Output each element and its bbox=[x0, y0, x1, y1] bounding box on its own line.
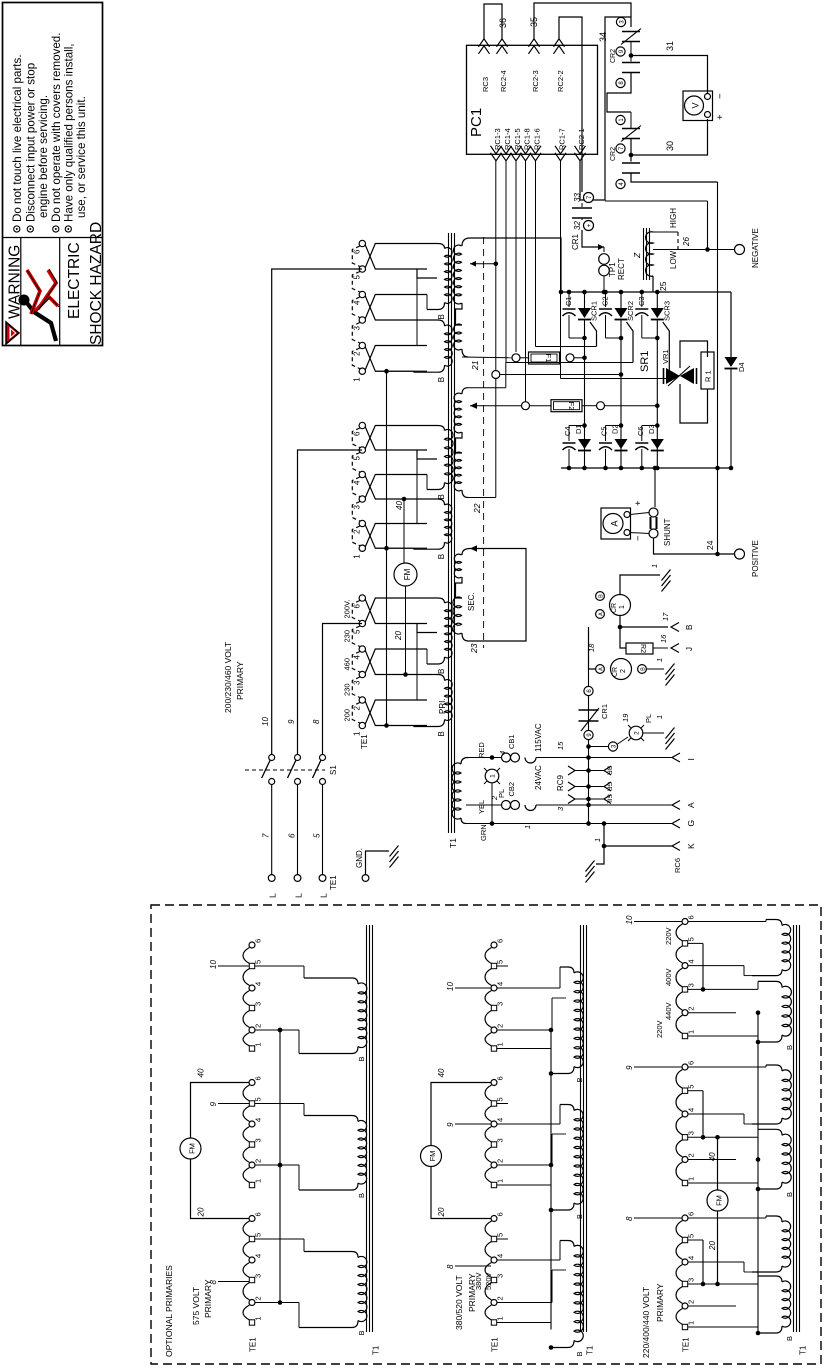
pilot light 1PL bbox=[485, 769, 499, 783]
ground terminal GND bbox=[362, 875, 369, 882]
220/400/440V group link bus bbox=[757, 1013, 759, 1334]
575V input wire 10 bbox=[218, 965, 249, 967]
svg-text:B: B bbox=[785, 1336, 794, 1341]
svg-text:18: 18 bbox=[587, 643, 596, 652]
380/520V wire 20 bbox=[431, 1167, 491, 1219]
svg-text:1: 1 bbox=[593, 838, 602, 842]
wire from bus to shunt bbox=[653, 466, 658, 471]
svg-text:SR1: SR1 bbox=[639, 351, 651, 372]
choke Z winding bbox=[646, 232, 653, 277]
svg-text:B: B bbox=[685, 625, 694, 630]
svg-text:6: 6 bbox=[288, 833, 297, 838]
svg-text:4: 4 bbox=[687, 1256, 696, 1260]
input leads L L L wires 7 6 5 bbox=[271, 785, 273, 875]
svg-text:460: 460 bbox=[343, 658, 352, 671]
575V terminal group 3 bbox=[249, 1216, 255, 1222]
380/520V transformer core bbox=[580, 925, 582, 1332]
svg-text:230: 230 bbox=[343, 683, 352, 696]
svg-text:200: 200 bbox=[343, 709, 352, 722]
380/520V input wire 10 bbox=[455, 987, 491, 989]
svg-text:4: 4 bbox=[254, 1118, 263, 1122]
220/400/440V terminal group 1 bbox=[682, 919, 688, 925]
resistor R2 wire 16 bbox=[620, 627, 626, 648]
PC1 pin RC1-3 bbox=[491, 153, 502, 161]
varistor VR1 bbox=[666, 376, 669, 379]
svg-text:T1: T1 bbox=[799, 1345, 808, 1355]
PC1 pin RC1-6 bbox=[530, 153, 541, 161]
svg-text:6: 6 bbox=[496, 1076, 505, 1080]
wire 36 jumper RC3 to RC2-4 bbox=[484, 4, 502, 40]
svg-text:9: 9 bbox=[625, 1065, 634, 1070]
electric shock hazard figure bbox=[19, 269, 60, 341]
voltmeter V bbox=[683, 91, 713, 121]
svg-text:1: 1 bbox=[254, 1179, 263, 1183]
575V transformer core bbox=[366, 925, 368, 1332]
svg-text:CB2: CB2 bbox=[507, 782, 516, 797]
svg-text:C3: C3 bbox=[637, 296, 646, 306]
wire 40 to fan motor bbox=[402, 497, 407, 502]
220/400/440V winding group 3 bbox=[782, 1221, 791, 1267]
pilot light 2PL wire 19 bbox=[589, 746, 609, 748]
220/400/440V input wire 9 bbox=[634, 1066, 682, 1068]
svg-text:T1: T1 bbox=[372, 1345, 381, 1355]
input disconnect switch S1 bbox=[269, 755, 275, 761]
PC1 pin RC2-1 bbox=[575, 153, 586, 161]
svg-text:6: 6 bbox=[496, 1212, 505, 1216]
svg-text:VR1: VR1 bbox=[661, 349, 670, 364]
svg-text:5: 5 bbox=[353, 456, 362, 461]
terminal link cluster TE1 group 1 bbox=[352, 246, 360, 267]
wire 8 input to group3 terminal 5 bbox=[323, 624, 363, 757]
svg-text:5: 5 bbox=[687, 1234, 696, 1238]
svg-text:2: 2 bbox=[254, 1159, 263, 1163]
gate wires to PC1 bbox=[536, 346, 597, 348]
SCR1 gate lead bbox=[590, 322, 597, 347]
380/520V input wire 8 bbox=[455, 1265, 491, 1267]
primary winding group 3 coil B bbox=[427, 675, 445, 681]
control bus bbox=[588, 669, 590, 823]
PC1 pin RC1-8 bbox=[520, 153, 531, 161]
rectifier cathode bus wire 25 bbox=[561, 291, 731, 293]
svg-text:35: 35 bbox=[529, 17, 539, 27]
svg-text:3: 3 bbox=[353, 326, 362, 331]
relay coil CR1 bbox=[610, 595, 631, 616]
575V wire 20 bbox=[191, 1159, 250, 1219]
wire 10 input to group1 terminal 5 bbox=[272, 269, 362, 756]
svg-text:2: 2 bbox=[353, 529, 362, 534]
wire 9 input to group2 terminal 5 bbox=[298, 450, 363, 756]
svg-text:CB1: CB1 bbox=[507, 734, 516, 749]
svg-text:2: 2 bbox=[353, 351, 362, 356]
380/520V terminal group 1 bbox=[491, 942, 497, 948]
svg-text:TE1: TE1 bbox=[249, 1337, 258, 1352]
svg-text:3: 3 bbox=[254, 1138, 263, 1142]
svg-text:220V: 220V bbox=[664, 927, 673, 945]
svg-text:4: 4 bbox=[496, 982, 505, 986]
CR2 relay contact 1-7 (NC) bbox=[616, 115, 625, 124]
svg-text:A: A bbox=[686, 802, 696, 808]
transformer T1 core bbox=[448, 233, 450, 833]
svg-text:B: B bbox=[641, 667, 647, 671]
svg-text:1: 1 bbox=[254, 1316, 263, 1320]
snubber capacitor C3 bbox=[640, 290, 645, 295]
svg-text:3: 3 bbox=[496, 1274, 505, 1278]
HIGH tap (dashed) wire 26 bbox=[653, 231, 678, 233]
svg-text:CR1: CR1 bbox=[600, 704, 609, 719]
svg-text:B: B bbox=[599, 594, 605, 598]
wire 1 CR2 coil to ground bbox=[647, 668, 665, 670]
wire 30 to voltmeter plus bbox=[630, 139, 632, 162]
svg-text:34: 34 bbox=[598, 32, 608, 42]
svg-text:B: B bbox=[437, 314, 446, 319]
shunt bbox=[649, 508, 658, 517]
svg-text:B: B bbox=[437, 377, 446, 382]
svg-text:B: B bbox=[785, 1045, 794, 1050]
svg-text:GR: GR bbox=[605, 782, 612, 792]
svg-text:20: 20 bbox=[437, 1207, 446, 1217]
svg-text:GND.: GND. bbox=[355, 848, 364, 868]
svg-text:40: 40 bbox=[395, 501, 404, 510]
svg-text:use, or service this unit.: use, or service this unit. bbox=[75, 96, 88, 218]
svg-text:POSITIVE: POSITIVE bbox=[751, 540, 760, 577]
svg-text:T1: T1 bbox=[448, 838, 458, 848]
svg-text:C4: C4 bbox=[563, 426, 572, 436]
control winding 115V/24V bbox=[461, 758, 468, 765]
svg-text:6: 6 bbox=[353, 249, 362, 254]
380/520V terminal group 3 bbox=[491, 1216, 497, 1222]
thyristor SCR2 bbox=[619, 290, 624, 295]
svg-text:2: 2 bbox=[687, 1300, 696, 1304]
secondary winding 3 bbox=[462, 549, 470, 556]
svg-text:RC2-3: RC2-3 bbox=[531, 70, 540, 92]
svg-text:SCR3: SCR3 bbox=[662, 301, 671, 321]
svg-text:A: A bbox=[610, 520, 620, 526]
svg-text:TE1: TE1 bbox=[360, 734, 369, 749]
svg-text:FM: FM bbox=[188, 1143, 197, 1154]
svg-text:5: 5 bbox=[254, 1097, 263, 1101]
svg-text:10: 10 bbox=[261, 717, 270, 726]
svg-text:B: B bbox=[785, 1192, 794, 1197]
svg-text:TE1: TE1 bbox=[491, 1337, 500, 1352]
svg-text:2: 2 bbox=[687, 1007, 696, 1011]
svg-text:1: 1 bbox=[687, 1321, 696, 1325]
svg-text:C6: C6 bbox=[636, 426, 645, 436]
svg-text:F1: F1 bbox=[544, 354, 553, 363]
svg-text:Z: Z bbox=[632, 252, 642, 259]
svg-text:Do not touch live electrical p: Do not touch live electrical parts. bbox=[11, 54, 24, 222]
connector pin 6 bbox=[584, 686, 593, 695]
575V input wire 8 bbox=[218, 1281, 249, 1283]
svg-text:2: 2 bbox=[353, 706, 362, 711]
svg-text:1: 1 bbox=[655, 658, 664, 662]
svg-text:24VAC: 24VAC bbox=[534, 765, 543, 790]
svg-text:D4: D4 bbox=[737, 362, 746, 372]
svg-text:RC1-7: RC1-7 bbox=[558, 128, 567, 150]
svg-text:20: 20 bbox=[394, 631, 403, 641]
svg-text:8: 8 bbox=[312, 719, 321, 724]
svg-text:A: A bbox=[599, 612, 605, 616]
wire 17 to terminal B bbox=[620, 616, 668, 628]
sec1 center tap wire bbox=[470, 261, 476, 267]
svg-text:400V: 400V bbox=[664, 968, 673, 986]
wire sec2 top to PC1 RC1-4 net bbox=[468, 387, 506, 389]
svg-text:380V: 380V bbox=[474, 1272, 483, 1290]
choke Z core bbox=[643, 228, 645, 280]
svg-text:10: 10 bbox=[209, 960, 218, 969]
rectifier anode bus bbox=[561, 467, 731, 469]
svg-text:23: 23 bbox=[469, 643, 479, 654]
wire 24 to positive terminal bbox=[654, 538, 735, 554]
svg-text:C5: C5 bbox=[600, 426, 609, 436]
svg-text:1: 1 bbox=[523, 825, 532, 829]
svg-text:200V.: 200V. bbox=[343, 600, 352, 619]
relay coil CR2 wire 18 bbox=[589, 627, 596, 669]
POSITIVE output terminal bbox=[735, 549, 745, 559]
svg-text:1: 1 bbox=[650, 564, 659, 568]
dash centerline bbox=[483, 237, 485, 648]
svg-text:9: 9 bbox=[446, 1122, 455, 1127]
svg-text:RC2-4: RC2-4 bbox=[499, 70, 508, 92]
wire sec3 to control circuit bbox=[468, 549, 526, 642]
GRN lead wire G bbox=[466, 823, 672, 825]
svg-text:33: 33 bbox=[573, 193, 582, 202]
svg-text:J: J bbox=[685, 647, 694, 651]
220/400/440V winding group 1 bbox=[782, 924, 791, 970]
svg-text:3: 3 bbox=[254, 1002, 263, 1006]
positive bus wire bbox=[717, 182, 719, 554]
svg-text:4: 4 bbox=[496, 1254, 505, 1258]
svg-text:F2: F2 bbox=[567, 402, 576, 411]
wire negative to CR2 contact chain bbox=[707, 201, 709, 250]
svg-text:RC6: RC6 bbox=[673, 858, 682, 873]
svg-text:5: 5 bbox=[254, 1233, 263, 1237]
380/520V fan motor FM bbox=[421, 1146, 442, 1167]
svg-text:CR2: CR2 bbox=[610, 147, 617, 161]
svg-text:Have only qualified persons in: Have only qualified persons install, bbox=[63, 43, 76, 222]
svg-text:SIL: SIL bbox=[605, 794, 612, 804]
connector pin J3-7 wire 33 bbox=[584, 193, 594, 203]
primary winding group 1 coil A bbox=[427, 244, 445, 249]
wire 35 RC2-3 to CR2 contact 3 bbox=[534, 3, 631, 40]
svg-text:2: 2 bbox=[620, 669, 627, 673]
svg-text:25: 25 bbox=[658, 281, 668, 291]
svg-text:1: 1 bbox=[687, 1177, 696, 1181]
575V group link bus bbox=[279, 1030, 281, 1303]
svg-text:B: B bbox=[357, 1330, 366, 1335]
svg-text:GRN: GRN bbox=[479, 824, 488, 841]
svg-text:1: 1 bbox=[496, 1316, 505, 1320]
220/400/440V wire 40 bbox=[717, 1137, 719, 1190]
svg-text:230: 230 bbox=[343, 630, 352, 643]
svg-text:Do not operate with covers rem: Do not operate with covers removed. bbox=[50, 33, 63, 222]
575V terminal group 1 bbox=[249, 942, 255, 948]
575V winding group 3 bbox=[358, 1256, 367, 1321]
svg-text:L: L bbox=[294, 893, 304, 898]
svg-text:PRIMARY: PRIMARY bbox=[235, 661, 245, 700]
wire 1 CR1 coil to ground bbox=[620, 575, 660, 595]
svg-text:16: 16 bbox=[659, 634, 668, 643]
svg-text:9: 9 bbox=[287, 719, 296, 724]
svg-text:6: 6 bbox=[687, 915, 696, 919]
svg-text:CR: CR bbox=[611, 603, 618, 613]
fuse F2 bbox=[525, 161, 527, 406]
svg-text:B: B bbox=[437, 554, 446, 559]
575V winding group 2 bbox=[358, 1120, 367, 1184]
220/400/440V input wire 10 bbox=[634, 921, 682, 923]
svg-text:YEL: YEL bbox=[477, 800, 486, 814]
primary winding group 3 coil A bbox=[427, 598, 445, 603]
test point TP1 RECT bbox=[603, 247, 605, 252]
svg-text:TE1: TE1 bbox=[682, 1337, 691, 1352]
svg-text:RC2-2: RC2-2 bbox=[556, 70, 565, 92]
PC1 pin RC1-7 bbox=[555, 153, 566, 161]
connector pin J2 wire 32 bbox=[581, 218, 583, 220]
svg-text:1: 1 bbox=[254, 1042, 263, 1046]
svg-text:SCR2: SCR2 bbox=[626, 301, 635, 321]
wire 22 sec2 tap to F2 bbox=[470, 403, 477, 409]
PC1 pin RC1-5 bbox=[511, 153, 522, 161]
svg-text:7: 7 bbox=[262, 833, 271, 838]
svg-text:B: B bbox=[575, 1351, 584, 1356]
svg-text:Disconnect input power or stop: Disconnect input power or stop bbox=[25, 63, 38, 222]
svg-text:5: 5 bbox=[687, 1085, 696, 1089]
svg-text:PL: PL bbox=[644, 714, 653, 723]
svg-text:5: 5 bbox=[353, 275, 362, 280]
svg-text:5: 5 bbox=[496, 960, 505, 964]
svg-text:3: 3 bbox=[254, 1274, 263, 1278]
svg-text:OPTIONAL PRIMARIES: OPTIONAL PRIMARIES bbox=[164, 1265, 174, 1357]
capacitor C6 bbox=[642, 425, 658, 427]
svg-text:1: 1 bbox=[496, 1042, 505, 1046]
575V terminal group 2 bbox=[249, 1080, 255, 1086]
svg-text:22: 22 bbox=[472, 503, 482, 514]
svg-text:1: 1 bbox=[489, 774, 496, 778]
svg-text:6: 6 bbox=[687, 1061, 696, 1065]
svg-text:1: 1 bbox=[353, 377, 362, 382]
connector pin 9 bbox=[584, 730, 593, 739]
svg-text:36: 36 bbox=[498, 18, 508, 28]
primary winding group 2 coil B bbox=[427, 499, 445, 505]
SCR2 gate lead bbox=[627, 322, 634, 363]
svg-text:−: − bbox=[633, 535, 644, 541]
wire K / RC6 / ground bbox=[602, 821, 607, 826]
snubber capacitor C2 bbox=[603, 290, 608, 295]
svg-text:17: 17 bbox=[661, 612, 670, 621]
svg-text:5: 5 bbox=[313, 833, 322, 838]
svg-text:WARNING: WARNING bbox=[7, 245, 24, 319]
svg-text:19: 19 bbox=[621, 713, 630, 722]
svg-text:26: 26 bbox=[682, 237, 691, 247]
svg-text:32: 32 bbox=[573, 221, 582, 230]
svg-text:TE1: TE1 bbox=[329, 875, 338, 890]
wire from contact 4 to positive bus bbox=[631, 173, 718, 182]
svg-text:4: 4 bbox=[687, 959, 696, 963]
svg-text:21: 21 bbox=[470, 360, 480, 371]
wire 20 from fan motor bbox=[405, 586, 407, 675]
svg-text:2: 2 bbox=[496, 1159, 505, 1163]
svg-text:L: L bbox=[268, 893, 278, 898]
PC board PC1 bbox=[467, 45, 598, 154]
svg-text:PRIMARY: PRIMARY bbox=[655, 1283, 665, 1322]
svg-text:8: 8 bbox=[625, 1216, 634, 1221]
link wires group 3 bbox=[417, 624, 437, 633]
thyristor SCR3 bbox=[655, 290, 660, 295]
svg-text:+: + bbox=[633, 500, 644, 506]
svg-text:BR: BR bbox=[605, 766, 612, 775]
380/520V terminal group 2 bbox=[491, 1080, 497, 1086]
svg-text:R 1: R 1 bbox=[704, 370, 713, 382]
380/520V winding group 3 bbox=[574, 1245, 583, 1341]
220/400/440V fan motor FM bbox=[707, 1190, 728, 1211]
svg-text:NEGATIVE: NEGATIVE bbox=[751, 228, 760, 268]
svg-text:6: 6 bbox=[254, 1076, 263, 1080]
capacitor C5 bbox=[606, 425, 622, 427]
primary winding group 1 coil B bbox=[427, 320, 445, 326]
svg-text:3: 3 bbox=[496, 1138, 505, 1142]
svg-text:−: − bbox=[715, 93, 726, 99]
wire 21 secondary to F1 bbox=[462, 356, 512, 359]
svg-text:RECT: RECT bbox=[617, 258, 626, 280]
svg-text:6: 6 bbox=[254, 939, 263, 943]
diode D4 bbox=[730, 292, 732, 357]
575V fan motor FM bbox=[180, 1138, 201, 1159]
svg-text:3: 3 bbox=[353, 505, 362, 510]
optional primaries dashed box bbox=[151, 905, 821, 1364]
svg-text:T1: T1 bbox=[586, 1345, 595, 1355]
380/520V input wire 9 bbox=[455, 1123, 491, 1125]
svg-text:1: 1 bbox=[687, 1030, 696, 1034]
svg-text:CR: CR bbox=[612, 667, 619, 677]
PC1 wire RC1-3 / sec taps bbox=[495, 161, 497, 371]
svg-text:4: 4 bbox=[353, 655, 362, 660]
PC1 wire RC1-4 bbox=[505, 161, 507, 363]
svg-text:FM: FM bbox=[403, 568, 412, 580]
380/520V group link bus bbox=[550, 1030, 552, 1330]
wire 31 to voltmeter minus bbox=[631, 56, 708, 94]
svg-text:2: 2 bbox=[496, 1296, 505, 1300]
svg-text:TP1: TP1 bbox=[608, 262, 617, 277]
svg-text:1: 1 bbox=[353, 554, 362, 559]
svg-text:4: 4 bbox=[498, 751, 507, 755]
svg-text:engine before servicing.: engine before servicing. bbox=[37, 95, 50, 218]
PC1 wire RC1-7 bbox=[560, 161, 562, 379]
PC1 pin RC3 bbox=[479, 39, 490, 47]
svg-text:+: + bbox=[715, 114, 726, 120]
svg-text:5: 5 bbox=[687, 937, 696, 941]
380/520V wire 40 bbox=[431, 1083, 491, 1146]
svg-text:6: 6 bbox=[353, 604, 362, 609]
svg-text:1: 1 bbox=[619, 605, 626, 609]
PC1 pin RC2-4 bbox=[497, 39, 508, 47]
svg-text:K: K bbox=[686, 843, 696, 849]
575V input wire 9 bbox=[218, 1103, 249, 1105]
svg-text:6: 6 bbox=[687, 1212, 696, 1216]
svg-text:40: 40 bbox=[708, 1152, 717, 1161]
svg-text:B: B bbox=[357, 1056, 366, 1061]
svg-text:4: 4 bbox=[254, 1254, 263, 1258]
ammeter A bbox=[601, 508, 631, 539]
svg-text:20: 20 bbox=[708, 1241, 717, 1251]
CR2 relay contact 7-4 (NO) bbox=[622, 162, 640, 164]
svg-text:SHOCK HAZARD: SHOCK HAZARD bbox=[88, 222, 105, 345]
svg-text:5: 5 bbox=[254, 960, 263, 964]
diode D1 bbox=[582, 423, 587, 428]
svg-text:V: V bbox=[691, 102, 701, 108]
svg-text:6: 6 bbox=[254, 1212, 263, 1216]
capacitor C4 bbox=[569, 425, 585, 427]
svg-text:200/230/460 VOLT: 200/230/460 VOLT bbox=[223, 642, 233, 713]
svg-text:10: 10 bbox=[446, 982, 455, 991]
